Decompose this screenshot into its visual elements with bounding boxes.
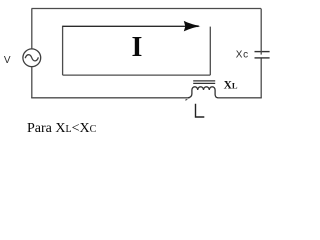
arrowhead of current loop (184, 21, 201, 32)
wire bottom right (inductor to corner) (218, 97, 262, 99)
svg-text:XL: XL (224, 80, 238, 92)
inductor L1 (188, 81, 218, 98)
capacitor C1 (255, 52, 270, 58)
current loop top edge with arrow (63, 25, 188, 27)
current loop left edge (62, 26, 64, 75)
wire joint tick at inductor left lead (185, 99, 187, 100)
ac source V1 (23, 49, 41, 67)
wire top edge (32, 8, 262, 10)
wire right lower (bottom corner to capacitor) (260, 58, 262, 98)
svg-text:Para XL<XC: Para XL<XC (27, 121, 97, 136)
wire left upper (top corner to source) (31, 9, 33, 50)
svg-text:Xc: Xc (236, 49, 249, 60)
current loop right edge (209, 27, 211, 76)
label L (196, 104, 205, 117)
current loop bottom edge (63, 74, 211, 76)
wire bottom left (corner to inductor) (31, 97, 189, 99)
wire left lower (source to bottom corner) (31, 67, 33, 98)
svg-text:I: I (132, 32, 143, 63)
svg-text:V: V (4, 55, 11, 66)
wire right upper (top corner to capacitor stub) (260, 9, 262, 55)
